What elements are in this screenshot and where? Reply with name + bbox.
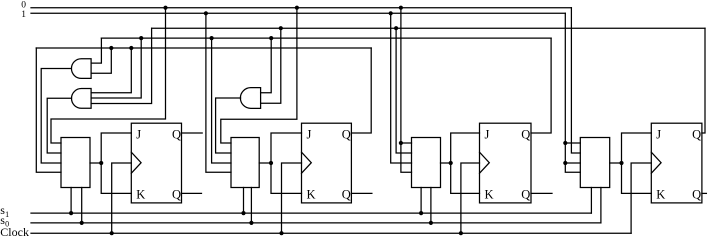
wire: M1 select s1 tap (70, 188, 72, 214)
multiplexer M3 (412, 138, 441, 188)
svg-text:J: J (656, 127, 661, 141)
wire: M1 select s0 tap (81, 188, 83, 223)
junction on line 0 at x=400.9 (399, 6, 403, 10)
wire: M2 output to J/K of U2 (259, 133, 301, 193)
svg-text:J: J (485, 127, 490, 141)
wire: line 0 horizontal bus (31, 7, 571, 9)
wire: U3 Q output up to net Q3 (531, 38, 551, 133)
wire: G2 output to mux M1 input 2 (47, 98, 71, 153)
wire: G1 output to mux M1 input 3 (41, 69, 71, 164)
junction on net Q3 at G3.a (269, 36, 273, 40)
wire: U2 Qbar output stub (351, 192, 372, 194)
flip-flop U4 (JK) (651, 123, 702, 203)
wire: G2 input a riser to net Q2 (91, 48, 131, 93)
wire: line-0 tap riser to M1 input 1 (51, 8, 166, 143)
svg-text:Q: Q (172, 188, 181, 202)
svg-text:J: J (307, 127, 312, 141)
node s1 (select input label) (0, 203, 9, 219)
wire: line-0 tap rail to M3 inputs 1 and 4 (401, 8, 412, 173)
junction on s0 at M2 (249, 221, 253, 225)
wire: M3 output to J/K of U3 (441, 133, 480, 193)
wire: line-1 tap rail to M3 input 3 (391, 13, 412, 163)
junction on line 0 at x=296.9 (295, 6, 299, 10)
junction at M3 output branch (449, 161, 453, 165)
svg-text:K: K (136, 188, 145, 202)
junction on Clock at U1 (110, 231, 114, 235)
wire: line-0 end rail to M4 input 2 (571, 8, 580, 153)
junction on line 1 at x=205.9 (204, 11, 208, 15)
wire: G3 input b riser to net Q4 (261, 28, 281, 103)
and-gate G3 (points left) (240, 88, 260, 109)
junction on net Q3 at G2.b (139, 36, 143, 40)
wire: M2 select s0 tap (250, 188, 252, 223)
junction at M4 input-1 branch (563, 141, 567, 145)
node s0 (select input label) (0, 213, 9, 229)
junction at M3 input-1 branch (399, 141, 403, 145)
wire: M2 select s1 tap (243, 188, 245, 214)
wire: U4 Qbar output stub (702, 192, 707, 194)
svg-text:Q: Q (521, 127, 530, 141)
wire: Clock bus (31, 232, 631, 234)
wire: line-0 tap riser to M2 input 1 (221, 8, 297, 143)
wire: M1 output to J/K of U1 (90, 133, 131, 193)
wire: net-Q4 tap rail to M3 input 2 (396, 28, 411, 153)
clock triangle of U4 (651, 152, 661, 173)
clock triangle of U1 (131, 152, 141, 173)
wire: net-Q3 tap rail to M2 input 3 (212, 38, 231, 163)
junction at M4 output branch (619, 161, 623, 165)
junction on s0 at M1 (80, 221, 84, 225)
svg-text:Clock: Clock (0, 225, 29, 239)
junction on net Q4 at G3.b (279, 26, 283, 30)
wire: G1 input a riser (start of net Q3) (91, 38, 101, 63)
wire: line-1 end rail to M4 inputs 1,3,4 (565, 13, 580, 172)
wire: line 1 (31, 12, 565, 14)
wire: clock riser to U2 (282, 163, 302, 233)
wire: U4 Q output up to net Q4 (702, 28, 705, 133)
junction at M1 output branch (99, 161, 103, 165)
wire: U2 Q output up to net Q2 (351, 48, 371, 133)
junction at M2 output branch (269, 161, 273, 165)
svg-text:K: K (485, 188, 494, 202)
wire: net-Q2 rail to M1 input 4 (36, 48, 61, 172)
junction on net Q2 at G1.b (109, 46, 113, 50)
wire: net Q3 feedback horizontal (y=38) (101, 37, 551, 39)
wire: Clock end riser to U4 (631, 163, 651, 233)
svg-text:Q: Q (521, 188, 530, 202)
svg-text:K: K (307, 188, 316, 202)
junction on s1 at M1 (69, 211, 73, 215)
and-gate G2 (points left) (71, 89, 91, 109)
junction on s0 at M3 (429, 221, 433, 225)
svg-text:Q: Q (342, 188, 351, 202)
and-gate G1 (points left) (71, 59, 91, 79)
junction on s1 at M2 (241, 211, 245, 215)
flip-flop U3 (JK) (480, 123, 532, 203)
wire: G2 input b riser to net Q3 (91, 38, 141, 98)
wire: U3 Qbar output stub (531, 192, 552, 194)
junction on line 1 at x=390.7 (389, 11, 393, 15)
wire: G3 output to mux M2 input 2 (216, 98, 241, 153)
clock triangle of U2 (302, 152, 312, 173)
wire: s1 end riser to M4 (590, 188, 592, 214)
wire: G3 input a riser to net Q3 (261, 38, 272, 93)
flip-flop U2 (JK) (302, 123, 352, 203)
wire: net Q2 feedback horizontal (y=48) (36, 47, 371, 49)
junction at M4 input-3 branch (563, 161, 567, 165)
wire: G1 input b riser to net Q2 (91, 48, 111, 73)
svg-text:1: 1 (21, 10, 26, 20)
junction on s1 at M3 (419, 211, 423, 215)
clock triangle of U3 (480, 152, 490, 173)
svg-text:1: 1 (5, 210, 9, 219)
svg-text:J: J (136, 127, 141, 141)
wire: M3 select s1 tap (420, 188, 422, 214)
multiplexer M1 (61, 138, 90, 188)
junction on net Q3 at x=211.6 (210, 36, 214, 40)
wire: U1 Q output stub (182, 132, 203, 134)
junction on Clock at U2 (279, 231, 283, 235)
wire: line-1 tap rail to M2 input 4 (206, 13, 231, 172)
multiplexer M4 (580, 138, 609, 188)
multiplexer M2 (231, 138, 259, 188)
wire: M3 select s0 tap (430, 188, 432, 223)
flip-flop U1 (JK) (131, 123, 181, 203)
wire: s0 end riser to M4 (600, 188, 602, 223)
wire: s0 select bus (31, 222, 601, 224)
svg-text:Q: Q (172, 127, 181, 141)
svg-text:Q: Q (692, 188, 701, 202)
junction on line 0 at x=165.5 (163, 6, 167, 10)
wire: M4 output to J/K of U4 (610, 133, 652, 193)
junction on net Q4 at x=396.1 (394, 26, 398, 30)
wire: net Q4 feedback horizontal (y=28) (152, 27, 705, 29)
svg-text:K: K (656, 188, 665, 202)
svg-text:Q: Q (692, 127, 701, 141)
wire: clock riser to U3 (461, 163, 480, 233)
junction on Clock at U3 (459, 231, 463, 235)
wire: U1 Qbar output stub (182, 192, 202, 194)
svg-text:Q: Q (342, 127, 351, 141)
wire: G2 input c riser (start of net Q4) (91, 28, 152, 103)
junction on net Q2 at G2.a (129, 46, 133, 50)
wire: s1 select bus (31, 212, 591, 214)
wire: clock riser to U1 (112, 163, 132, 233)
